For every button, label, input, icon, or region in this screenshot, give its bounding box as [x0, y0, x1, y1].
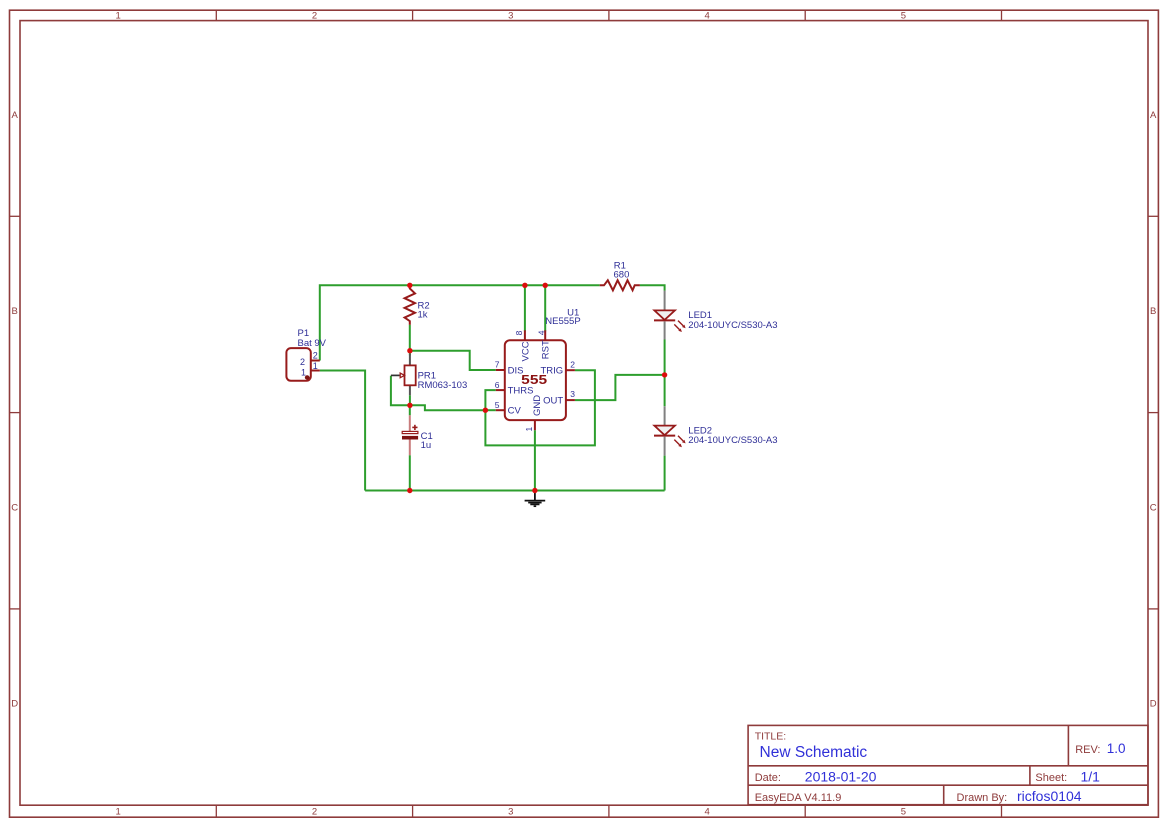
svg-text:B: B [1150, 306, 1156, 317]
svg-text:2: 2 [313, 350, 318, 360]
svg-text:5: 5 [901, 11, 906, 22]
wire PR1 bottom to junction [409, 395, 411, 405]
svg-text:EasyEDA V4.11.9: EasyEDA V4.11.9 [755, 792, 842, 804]
svg-text:VCC: VCC [520, 341, 531, 361]
wire R2 bottom to junction [409, 325, 411, 351]
junction OUT LED chain [662, 372, 667, 377]
svg-text:1: 1 [524, 427, 534, 432]
ruler ticks bottom [216, 805, 1001, 817]
svg-text:Bat 9V: Bat 9V [298, 338, 327, 349]
svg-text:A: A [1150, 110, 1157, 121]
svg-text:2: 2 [300, 357, 305, 367]
svg-text:New Schematic: New Schematic [760, 744, 868, 761]
svg-text:B: B [12, 306, 18, 317]
junction RST top rail [543, 283, 548, 288]
wire LED chain middle [664, 340, 666, 407]
pin 7 DIS [496, 369, 505, 371]
wire OUT to LED chain [575, 375, 665, 400]
svg-text:1: 1 [116, 11, 121, 22]
svg-text:2: 2 [570, 360, 575, 370]
LED1 [654, 291, 778, 340]
capacitor C1 [402, 415, 433, 455]
junction R2 top rail [407, 283, 412, 288]
svg-text:5: 5 [495, 400, 500, 410]
wire PR1 wiper loop [391, 376, 410, 406]
pin 6 THRS [496, 389, 505, 391]
resistor R1 [600, 261, 640, 291]
svg-text:1u: 1u [421, 440, 432, 451]
pin 8 VCC [524, 330, 526, 340]
ruler ticks top [216, 10, 1001, 20]
wire CV junction to CV pin [485, 409, 495, 411]
svg-text:1/1: 1/1 [1081, 768, 1101, 784]
battery connector P1 [286, 328, 326, 381]
svg-text:1: 1 [116, 807, 121, 818]
wire junction to DIS pin [410, 351, 496, 370]
svg-text:NE555P: NE555P [545, 316, 580, 327]
wire LED chain bottom [664, 456, 666, 491]
wire THRS loop to TRIG [485, 370, 595, 445]
pin 4 RST [544, 330, 546, 340]
svg-text:680: 680 [614, 270, 630, 281]
junction wiper C1 [407, 403, 412, 408]
svg-text:CV: CV [508, 405, 522, 416]
title block frame [748, 725, 1148, 804]
svg-text:RST: RST [540, 340, 551, 359]
svg-text:555: 555 [521, 372, 547, 387]
svg-text:204-10UYC/S530-A3: 204-10UYC/S530-A3 [688, 435, 777, 446]
wire VCC riser [524, 285, 526, 331]
svg-text:1k: 1k [418, 310, 428, 321]
svg-text:C: C [1150, 502, 1157, 513]
resistor R2 [405, 285, 430, 324]
svg-text:6: 6 [495, 380, 500, 390]
wire junction to PR1 top [409, 351, 411, 356]
svg-text:GND: GND [532, 395, 543, 416]
svg-text:4: 4 [704, 11, 709, 22]
svg-text:C: C [11, 502, 18, 513]
svg-text:OUT: OUT [543, 395, 563, 406]
svg-text:4: 4 [536, 330, 546, 335]
wire R1 right to LED chain corner [640, 285, 665, 291]
svg-text:A: A [12, 110, 19, 121]
svg-text:Drawn By:: Drawn By: [957, 792, 1008, 804]
svg-text:ricfos0104: ricfos0104 [1017, 788, 1082, 804]
op-amp U1 555 timer [495, 307, 581, 431]
ruler row labels right [1150, 110, 1157, 710]
wire RST riser [544, 285, 546, 331]
wire P1 pin1 to bottom rail [320, 371, 365, 491]
junction C1 bottom rail [407, 488, 412, 493]
wire P1 pin2 riser and top rail [320, 285, 600, 360]
svg-text:3: 3 [570, 389, 575, 399]
wire GND pin to rail [534, 430, 536, 490]
svg-text:RM063-103: RM063-103 [418, 380, 468, 391]
svg-text:Sheet:: Sheet: [1035, 772, 1067, 784]
pin 2 TRIG [566, 369, 575, 371]
junction VCC top rail [522, 283, 527, 288]
ruler ticks left [10, 216, 21, 609]
wire C1 top [409, 405, 411, 415]
pin 1 GND [534, 420, 536, 430]
ruler ticks right [1148, 216, 1158, 609]
junction CV [483, 408, 488, 413]
svg-text:THRS: THRS [508, 385, 534, 396]
svg-text:7: 7 [495, 360, 500, 370]
svg-text:5: 5 [901, 807, 906, 818]
svg-text:1: 1 [301, 368, 306, 378]
LED2 [654, 406, 778, 455]
wire junction to CV junction [410, 405, 486, 410]
svg-text:REV:: REV: [1075, 744, 1100, 756]
pin 3 OUT [566, 399, 575, 401]
ruler column labels top [116, 11, 906, 22]
svg-text:TITLE:: TITLE: [755, 731, 787, 743]
ruler column labels bottom [116, 807, 906, 818]
svg-text:3: 3 [508, 11, 513, 22]
svg-text:D: D [1150, 699, 1157, 710]
ground [525, 491, 546, 507]
svg-text:2: 2 [312, 807, 317, 818]
svg-text:1.0: 1.0 [1107, 741, 1126, 756]
svg-text:8: 8 [514, 330, 524, 335]
potentiometer PR1 [391, 354, 467, 396]
junction GND rail [532, 488, 537, 493]
svg-text:204-10UYC/S530-A3: 204-10UYC/S530-A3 [688, 320, 777, 331]
svg-text:2018-01-20: 2018-01-20 [805, 768, 877, 784]
svg-text:4: 4 [704, 807, 709, 818]
ruler row labels left [11, 110, 18, 710]
wire C1 bottom to rail [409, 455, 411, 490]
wire bottom rail [365, 490, 664, 492]
svg-text:D: D [11, 699, 18, 710]
pin 5 CV [496, 409, 505, 411]
svg-text:Date:: Date: [755, 772, 781, 784]
svg-text:1: 1 [313, 361, 318, 371]
junction R2 bottom PR1 [407, 348, 412, 353]
svg-text:2: 2 [312, 11, 317, 22]
svg-text:3: 3 [508, 807, 513, 818]
